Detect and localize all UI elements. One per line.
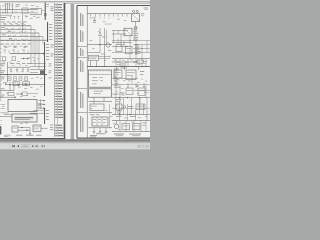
wire y52.6: [87, 52, 100, 54]
label stack x37 y103-109: [38, 102, 42, 105]
sidebar section lines: [77, 46, 87, 48]
short drops y50-53: [4, 50, 6, 53]
box E1: [114, 70, 122, 78]
terminal block T1: [92, 117, 108, 126]
box H2: [133, 123, 141, 129]
mesh risers y38-58 right half: [117, 39, 119, 45]
mesh wires y76-96 right half: [112, 78, 138, 80]
relay box K4: [33, 125, 41, 131]
bus y114.5 right: [112, 114, 150, 116]
wires into part-number box: [0, 115, 12, 117]
right page paper: [74, 4, 150, 139]
control unit box B: [89, 89, 112, 97]
strip labels y63-78: [49, 63, 52, 66]
labels above y54: [101, 53, 106, 56]
bus y101.4: [89, 100, 113, 102]
label rows above cascade: [1, 21, 5, 24]
bus y62 with junctions: [112, 61, 140, 63]
ticks on wires: [109, 56, 111, 58]
small switches y68-72: [10, 68, 12, 72]
arrow connectors row: [21, 58, 24, 60]
labels under diodes: [3, 49, 6, 52]
view mode buttons: [138, 145, 141, 148]
bus y44.6: [87, 44, 112, 46]
drops to main bus: [90, 61, 92, 67]
bus wire A: [0, 9, 38, 11]
labels x128 y106: [128, 105, 133, 108]
relay K11 box: [124, 28, 132, 36]
box H1: [122, 123, 130, 129]
labels y44-54 right: [135, 44, 139, 47]
capacitor symbol: [93, 20, 96, 22]
nav prev button: [17, 145, 19, 148]
component ticks on cascade rows: [4, 24, 6, 25]
viewer top strip: [0, 0, 150, 1]
small circle comp: [123, 106, 125, 108]
bus y30.6 right half: [112, 30, 128, 32]
riser x109.5: [109, 104, 111, 128]
switch symbol x98: [98, 31, 101, 34]
motor circle M2: [114, 124, 119, 129]
caption y136 left: [90, 134, 97, 137]
scattered wire labels left page: [31, 4, 34, 7]
labels between cascade rows: [1, 26, 5, 29]
label mush left page y64-83: [12, 64, 14, 67]
left margin tiny text column: [0, 39, 2, 42]
box J2: [136, 104, 145, 110]
vertical feeders right of M1: [104, 28, 106, 67]
connector pin table frame: [54, 3, 56, 137]
label text rows y40-46: [1, 39, 4, 42]
wire y67.2: [8, 66, 30, 68]
left page right border: [64, 3, 66, 139]
wire stubs to top edge: [5, 3, 7, 9]
labels right of box A: [114, 68, 119, 71]
wire x94 down: [93, 101, 95, 104]
box A inner labels: [92, 76, 97, 79]
terminal strip mid2: [44, 42, 46, 96]
harness cascade wires: [0, 25, 31, 27]
wire y15 stub: [0, 14, 12, 16]
bus y58.6: [112, 58, 150, 60]
hatched box B1: [13, 82, 20, 86]
relay K10 label: [141, 12, 144, 15]
bottom caption text rows: [4, 134, 11, 137]
switch box S2: [12, 126, 18, 132]
mesh wires y40-53 right half: [112, 40, 150, 42]
junction dot y97: [14, 96, 16, 98]
fusible link row: [8, 77, 11, 81]
box F4: [138, 88, 145, 96]
sidebar divider: [86, 6, 88, 139]
terminal strip mid1: [47, 22, 49, 42]
box F3: [126, 88, 133, 95]
motor circle M1: [106, 43, 110, 47]
table wire-color rows: [55, 4, 63, 136]
control unit box A: [89, 70, 112, 87]
nav first-page button: [13, 145, 15, 148]
box A pin ticks: [90, 70, 92, 72]
wire y90.6: [0, 90, 14, 92]
relay K10 earth lead: [135, 22, 137, 27]
risers y84-88: [127, 83, 129, 88]
feeder labels: [102, 36, 106, 39]
labeled box B2: [23, 82, 30, 86]
pin number dashes under top bus: [90, 17, 92, 20]
bus y42.6: [112, 42, 132, 44]
marks right of E2: [140, 70, 144, 73]
mesh junction dots y40-53: [129, 40, 130, 41]
sidebar rotated labels: [79, 13, 82, 26]
labels y63-68: [121, 63, 127, 66]
component box y92 second: [22, 92, 27, 95]
left page bottom frame: [0, 138, 65, 140]
bus y97.6 right: [112, 97, 150, 99]
nav next button: [32, 145, 34, 148]
row mark right: [29, 57, 31, 60]
switch symbols row: [10, 16, 12, 20]
fuse box F2: [12, 57, 15, 61]
main bus y66.6: [87, 66, 150, 68]
drops from main bus: [116, 67, 118, 70]
box E2: [126, 70, 136, 80]
toolbar separator: [9, 144, 12, 148]
connector blob C-01: [44, 13, 46, 16]
wire drops x10 x14: [9, 85, 11, 91]
label mush y81-96 right half: [115, 80, 118, 83]
top area labels mush: [2, 5, 5, 8]
component box y92: [8, 92, 14, 95]
sensor label y82: [3, 81, 7, 84]
drops under bus y127.8: [93, 128, 95, 132]
vertical label bottom left: [0, 126, 1, 134]
right page frame bottom border: [77, 137, 150, 139]
labels y114.5: [90, 113, 95, 116]
fuse box F1: [3, 57, 6, 61]
mesh junction dots: [119, 97, 120, 98]
mesh risers y76-102 right half: [115, 76, 117, 98]
left margin rule: [0, 5, 2, 100]
part-number box lower: [12, 114, 37, 122]
labels right of strip: [51, 44, 55, 47]
mid wires y110-113: [30, 112, 44, 114]
label mush y59-65 right half: [114, 59, 117, 62]
labels y116-118: [116, 115, 122, 118]
junction row y84.6: [5, 84, 45, 86]
right page frame top border: [77, 5, 150, 7]
bus arrows to strip: [30, 63, 44, 65]
box x90-104 y104: [90, 104, 104, 111]
strip labels mid1: [49, 23, 52, 26]
resistor R21: [137, 60, 144, 63]
marks y56-61 x32-42: [32, 56, 34, 59]
labels right of K11: [134, 28, 138, 31]
labels near table top: [51, 6, 54, 9]
wires right of S2: [18, 127, 30, 129]
riser x100 thermo: [99, 28, 101, 34]
heavy bus y74.6: [0, 74, 47, 76]
diode box D5: [116, 44, 122, 51]
wires from label block: [99, 56, 111, 58]
page counter field: [22, 144, 31, 147]
risers right-mid cluster: [113, 31, 115, 43]
terminal strip top segment: [44, 3, 46, 21]
mesh wires y105-112 right half: [112, 107, 150, 109]
control box upper left page: [8, 100, 37, 112]
connector label block: [89, 55, 99, 60]
relay coil loop: [30, 8, 42, 10]
zoom buttons: [42, 145, 43, 147]
tick drops on top bus: [90, 14, 92, 17]
diode symbols row: [4, 46, 9, 48]
cascade risers: [30, 26, 32, 64]
left branch wire x7.6: [7, 62, 9, 82]
ground symbols row: [93, 131, 96, 133]
labels x50 y124-132: [50, 124, 54, 127]
left page paper: [0, 4, 71, 139]
labels y82-90 right half: [115, 82, 119, 85]
label above box2: [2, 112, 9, 115]
strip labels y109-122: [46, 109, 49, 112]
top bus wire: [87, 13, 131, 15]
wire K4 to strip: [41, 127, 48, 129]
label text row y44: [1, 43, 5, 46]
flasher circle: [118, 111, 121, 114]
relay K10 box: [132, 14, 140, 22]
label T/F: [16, 3, 20, 6]
component labels y63: [11, 62, 14, 65]
terminal strip bottom segment: [44, 108, 46, 124]
scattered wire labels right page: [91, 17, 94, 20]
caption rows bottom right: [114, 133, 124, 136]
bus y34.0: [112, 33, 126, 35]
bus wire B: [0, 12, 38, 14]
labels y99-101: [116, 98, 122, 101]
marks x142.5 y122: [143, 122, 147, 125]
status bar background: [0, 139, 150, 140]
wire y24 stub: [105, 23, 113, 25]
main bus y53.6: [10, 53, 43, 55]
wires under box B: [93, 97, 95, 101]
wire drops below bus A: [5, 10, 7, 14]
risers y120-131 right-bottom: [119, 121, 121, 132]
riser turn down x30: [29, 128, 31, 134]
diode box D6: [126, 46, 133, 54]
mesh vertical wires right-bottom: [115, 98, 117, 115]
relay K10 circles: [133, 10, 135, 12]
left margin labels y63-79: [0, 62, 5, 65]
bus y127.8: [89, 127, 113, 129]
risers y58-66 right half: [115, 59, 117, 67]
right page frame left border: [76, 6, 78, 139]
bus y112.5: [89, 112, 113, 114]
nav last button: [36, 145, 38, 148]
title block marks top-right: [144, 7, 149, 10]
left margin label row: [0, 16, 6, 19]
bus y46.6: [112, 46, 128, 48]
flasher box J1: [116, 104, 122, 110]
bus y131.6 right: [112, 131, 150, 133]
branch wire x22.5: [22, 14, 24, 33]
strip labels mid2: [46, 43, 49, 46]
text mush y77-95 right half: [117, 79, 120, 82]
bus y120.5 right: [112, 120, 150, 122]
junction box: [22, 8, 28, 13]
margin labels y88-97: [0, 87, 4, 90]
connector blob C-05: [40, 70, 44, 74]
arrow taps right of box: [39, 100, 44, 102]
box A divider: [89, 74, 112, 76]
caption rows bottom mid: [96, 132, 105, 135]
